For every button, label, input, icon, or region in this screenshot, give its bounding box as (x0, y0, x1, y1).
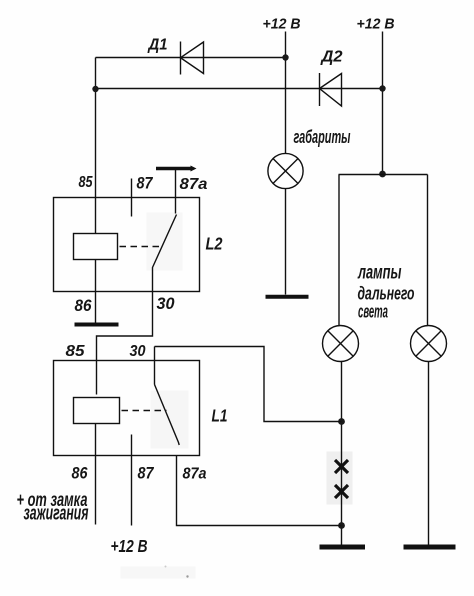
wire L2 pin30 to L1 pin85 zigzag (97, 292, 153, 395)
relay L2 coil (74, 234, 118, 260)
wire relay L1 pin30 to lamps junction (155, 347, 342, 422)
wire L1 pin 87a to lamps return (177, 456, 342, 526)
svg-text:лампы: лампы (357, 263, 401, 284)
wire right headlamp feed vertical (427, 175, 429, 327)
svg-text:L2: L2 (206, 234, 223, 254)
svg-text:Д2: Д2 (319, 49, 342, 66)
wire L2 pin 87 stub (131, 179, 133, 217)
eraser smudge around connector marks (327, 452, 353, 505)
ground left bottom (320, 545, 366, 550)
switch arm L2 (153, 215, 177, 292)
wire second horizontal from node through D2 to +12V feed 2 (96, 88, 383, 90)
svg-text:87а: 87а (183, 466, 207, 483)
coil link dashed L2 (120, 246, 162, 248)
coil link dashed L1 (122, 410, 167, 412)
svg-text:L1: L1 (212, 406, 228, 426)
wire +12V feed 1 vertical (285, 32, 287, 154)
wire L1 pin 87 stub (131, 435, 133, 526)
lamp high-beam right (411, 326, 447, 362)
node junction headlamp feed split (379, 171, 386, 178)
wire left vertical down to relay L2 coil pin 85 (95, 58, 97, 234)
eraser smudge bottom center (121, 567, 196, 579)
ground gabarity (266, 295, 309, 299)
svg-text:+12 В: +12 В (263, 16, 301, 33)
node junction left wires (92, 86, 98, 92)
connector X mark 2 (335, 485, 348, 498)
diode D2 (320, 73, 342, 106)
wire left headlamp feed vertical (338, 175, 340, 327)
lamp gabarity (parking light) (268, 153, 303, 188)
svg-text:света: света (358, 301, 388, 322)
svg-text:86: 86 (75, 296, 92, 315)
svg-text:85: 85 (79, 174, 94, 191)
relay L1 coil (74, 398, 120, 424)
wire gabarity lamp to ground (285, 189, 287, 295)
switch arm L1 (155, 385, 180, 446)
svg-text:30: 30 (130, 343, 146, 360)
wire L2 pin 87a bar (156, 167, 191, 170)
wire left headlamp down to ground (341, 362, 343, 546)
svg-text:85: 85 (66, 343, 86, 360)
node junction +12V1 to D1 wire (282, 54, 288, 60)
svg-text:87: 87 (137, 174, 154, 193)
svg-text:габариты: габариты (294, 127, 351, 147)
wire L2 coil bottom to pin 86 ground (95, 260, 97, 324)
svg-text:зажигания: зажигания (24, 503, 89, 525)
svg-text:86: 86 (72, 464, 88, 483)
svg-text:87: 87 (138, 464, 155, 483)
node junction relay output to left lamp (338, 418, 345, 425)
wire right headlamp down to ground (428, 362, 430, 546)
ground right bottom (404, 545, 456, 550)
svg-text:30: 30 (157, 294, 176, 313)
svg-text:+12 В: +12 В (111, 536, 148, 556)
relay L2 box (54, 198, 200, 292)
svg-text:87а: 87а (180, 176, 208, 193)
svg-text:Д1: Д1 (147, 37, 168, 54)
wire top horizontal from node to D1 and +12V feed 1 (96, 57, 286, 59)
relay L1 box (54, 361, 200, 456)
wire L2 87a arrowhead (191, 166, 197, 172)
connector X mark 1 (335, 460, 348, 473)
wire headlamp feed horizontal (339, 174, 428, 176)
wire L1 coil bottom pin 86 (95, 424, 97, 525)
wire L2 87a stub (175, 170, 177, 214)
svg-text:+12 В: +12 В (357, 16, 395, 33)
node junction +12V2 to D2 wire (379, 85, 385, 91)
lamp high-beam left (323, 326, 359, 362)
diode D1 (181, 42, 204, 75)
node junction 87a return (338, 522, 345, 529)
wire +12V feed 2 vertical (382, 32, 384, 175)
ground L2 pin 86 (75, 323, 119, 327)
wire L1 pin30 stub (154, 347, 156, 385)
